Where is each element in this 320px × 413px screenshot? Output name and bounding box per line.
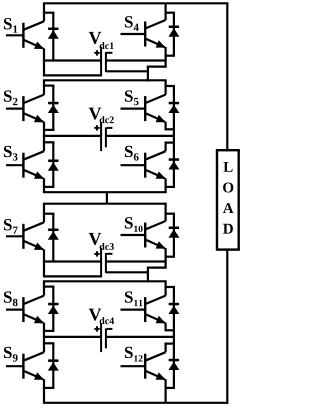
transistor S8 collector (23, 296, 44, 305)
wire S2 bottom staple (43, 129, 55, 131)
transistor S11 collector (145, 296, 165, 305)
wire Vdc1 minus lead (106, 70, 148, 72)
wire S7 collector up (43, 204, 45, 223)
transistor S10 emitter arrow (156, 241, 166, 248)
wire rail to Vdc3 plus (43, 275, 102, 277)
wire S1 emitter node down (43, 61, 45, 76)
label Vdc3 (89, 233, 102, 245)
diode D5 wire (173, 86, 175, 129)
wire jog horizontal lower (147, 267, 167, 269)
polarity + of Vdc3 (94, 253, 99, 255)
wire Vdc4 rail right (106, 336, 175, 338)
transistor S6 bar (144, 153, 146, 178)
voltage source Vdc1 long plate (+) (100, 47, 102, 76)
wire S4 bottom staple (165, 55, 176, 57)
diode D8 triangle (48, 306, 59, 314)
diode D8 wire (52, 287, 54, 331)
wire right side upper (226, 3, 228, 151)
wire jog horizontal (147, 65, 167, 67)
transistor S6 emitter arrow (156, 171, 166, 178)
transistor S1 gate lead (6, 34, 23, 36)
diode D9 cathode bar (48, 359, 58, 362)
label S2 (4, 90, 12, 101)
transistor S12 emitter arrow (156, 372, 166, 379)
transistor S3 bar (22, 153, 24, 178)
label S1 (4, 18, 12, 29)
wire S10 bottom staple (165, 256, 176, 258)
transistor S2 collector (23, 95, 44, 104)
wire S4 collector to top rail (165, 3, 167, 20)
diode D2 triangle (48, 105, 59, 113)
wire S1 collector to top rail (43, 3, 45, 21)
diode D12 wire (173, 344, 175, 388)
transistor S2 emitter arrow (34, 115, 44, 122)
wire S1 emitter down (43, 48, 45, 60)
wire S10 collector up (165, 204, 167, 221)
label Vdc4 (89, 309, 102, 321)
diode D11 triangle (168, 306, 179, 314)
transistor S12 bar (144, 354, 146, 379)
diode D7 triangle (48, 231, 59, 239)
transistor S3 emitter (23, 170, 43, 179)
wire S3 collector down (43, 136, 45, 151)
transistor S7 gate lead (6, 235, 23, 237)
transistor S7 bar (22, 224, 24, 249)
transistor S8 bar (22, 297, 24, 322)
wire S4 top staple (165, 12, 176, 14)
wire mid rail upper (43, 191, 167, 193)
diode D4 wire (173, 13, 175, 56)
diode D3 wire (52, 142, 54, 187)
diode D6 wire (173, 143, 175, 187)
wire Vdc2 rail left (43, 135, 101, 137)
wire right side lower (226, 250, 228, 404)
diode D10 wire (173, 214, 175, 257)
load box (217, 150, 239, 249)
label S9 (4, 347, 12, 358)
wire rail to Vdc1 plus (43, 74, 102, 76)
transistor S9 emitter arrow (34, 372, 44, 379)
wire S9 emitter down to bottom rail (43, 379, 45, 403)
diode D4 cathode bar (169, 26, 179, 29)
wire S8 collector up (43, 281, 45, 295)
wire S8 bottom staple (43, 330, 55, 332)
transistor S1 bar (22, 23, 24, 48)
transistor S9 gate lead (6, 365, 23, 367)
diode D1 cathode bar (48, 28, 58, 31)
wire cell2 top rail (43, 79, 167, 81)
transistor S2 gate lead (6, 107, 23, 109)
polarity + of Vdc4 (94, 328, 99, 330)
transistor S7 emitter arrow (34, 243, 44, 250)
wire S10 emitter down (165, 248, 167, 268)
transistor S7 collector (23, 222, 44, 231)
wire S11 collector up (165, 281, 167, 295)
wire battery rail 3 right (106, 260, 167, 262)
wire S5 collector up (165, 80, 167, 94)
voltage source Vdc3 short plate (-) (105, 253, 107, 273)
diode D11 cathode bar (169, 303, 179, 306)
wire battery rail 1 right (106, 59, 167, 61)
wire S11 top staple (165, 286, 176, 288)
wire jog vertical (147, 67, 149, 82)
transistor S8 emitter (23, 314, 43, 323)
wire battery rail 1 left (43, 59, 101, 61)
diode D12 triangle (168, 362, 179, 370)
transistor S4 emitter (145, 39, 165, 48)
wire S7 emitter down (43, 249, 45, 261)
wire S2 emitter down (43, 122, 45, 136)
wire mid rail lower (43, 203, 167, 205)
wire S6 bottom staple (165, 186, 176, 188)
transistor S12 collector (145, 352, 165, 361)
voltage source Vdc3 long plate (+) (100, 248, 102, 277)
transistor S4 bar (144, 22, 146, 47)
diode D5 cathode bar (169, 102, 179, 105)
diode D3 cathode bar (48, 160, 58, 163)
diode D12 cathode bar (169, 359, 179, 362)
diode D1 triangle (48, 30, 59, 38)
diode D8 cathode bar (48, 303, 58, 306)
label S7 (4, 219, 12, 230)
wire cell4 top rail (43, 280, 167, 282)
diode D4 triangle (168, 28, 179, 36)
transistor S5 emitter arrow (156, 115, 166, 122)
wire bottom rail (43, 402, 227, 404)
wire S4 emitter down (165, 47, 167, 67)
wire S5 emitter down (165, 122, 167, 130)
transistor S10 emitter (145, 240, 165, 249)
label S4 (125, 16, 133, 27)
transistor S12 gate lead (121, 365, 145, 367)
diode D6 cathode bar (169, 158, 179, 161)
wire top rail (43, 2, 229, 4)
transistor S4 gate lead (121, 33, 145, 35)
wire Vdc4 rail left (43, 336, 101, 338)
transistor S9 bar (22, 354, 24, 379)
diode D10 triangle (168, 229, 179, 237)
wire S6 top staple (165, 142, 176, 144)
wire S3 top staple (43, 141, 55, 143)
transistor S11 emitter (145, 314, 165, 323)
transistor S9 collector (23, 352, 44, 361)
wire S5 emitter to Vdc2 rail (173, 129, 175, 142)
wire S9 collector down (43, 337, 45, 352)
wire S10 top staple (165, 213, 176, 215)
label Vdc2 (89, 108, 102, 120)
diode D5 triangle (168, 105, 179, 113)
diode D2 wire (52, 86, 54, 130)
voltage source Vdc1 short plate (-) (105, 52, 107, 72)
transistor S6 gate lead (121, 164, 145, 166)
diode D1 wire (52, 13, 54, 61)
transistor S10 bar (144, 223, 146, 248)
wire S12 top staple (165, 343, 176, 345)
wire S12 collector down (165, 344, 167, 353)
voltage source Vdc2 long plate (+) (100, 122, 102, 151)
diode D10 cathode bar (169, 227, 179, 230)
wire S6 emitter down (165, 178, 167, 192)
polarity - of Vdc3 (107, 253, 113, 255)
wire jog vertical lower (147, 268, 149, 283)
transistor S11 gate lead (121, 309, 145, 311)
wire S9 bottom staple (43, 387, 55, 389)
diode D7 wire (52, 214, 54, 262)
wire S8 top staple (43, 286, 55, 288)
transistor S1 emitter (23, 40, 43, 49)
wire S2 collector up (43, 80, 45, 94)
label S11 (125, 291, 133, 302)
diode D7 cathode bar (48, 229, 58, 232)
transistor S8 emitter arrow (34, 316, 44, 323)
wire S6 collector down (165, 143, 167, 152)
wire battery rail 3 left (43, 260, 101, 262)
transistor S1 emitter arrow (34, 42, 44, 49)
transistor S7 emitter (23, 241, 43, 250)
wire S5 bottom staple (165, 128, 176, 130)
wire S3 emitter down (43, 178, 45, 192)
transistor S5 gate lead (121, 107, 145, 109)
wire mid connector (106, 192, 108, 204)
transistor S8 gate lead (6, 309, 23, 311)
wire S12 emitter down to bottom rail (165, 379, 167, 403)
wire S11 emitter down (165, 323, 167, 331)
wire S7 emitter node down (43, 262, 45, 277)
wire S9 top staple (43, 342, 55, 344)
label Vdc1 (89, 32, 102, 44)
label S5 (125, 90, 133, 101)
polarity + of Vdc1 (94, 52, 99, 54)
transistor S10 collector (145, 221, 165, 230)
transistor S5 collector (145, 95, 165, 104)
diode D2 cathode bar (48, 102, 58, 105)
transistor S3 emitter arrow (34, 171, 44, 178)
voltage source Vdc4 long plate (+) (100, 323, 102, 352)
polarity - of Vdc1 (107, 52, 113, 54)
label S6 (125, 146, 133, 157)
label S8 (4, 291, 12, 302)
transistor S12 emitter (145, 371, 165, 380)
wire S8 emitter down (43, 323, 45, 337)
wire S7 top staple (43, 213, 55, 215)
wire S3 bottom staple (43, 186, 55, 188)
transistor S11 bar (144, 297, 146, 322)
transistor S6 emitter (145, 170, 165, 179)
label S10 (125, 217, 133, 228)
transistor S5 emitter (145, 113, 165, 122)
transistor S9 emitter (23, 371, 43, 380)
transistor S4 collector (145, 20, 165, 29)
wire S12 bottom staple (165, 387, 176, 389)
transistor S10 gate lead (121, 234, 145, 236)
wire Vdc2 rail right (106, 135, 175, 137)
voltage source Vdc2 short plate (-) (105, 127, 107, 147)
diode D9 triangle (48, 362, 59, 370)
wire S1 top staple (43, 12, 55, 14)
transistor S6 collector (145, 151, 165, 160)
polarity - of Vdc2 (107, 127, 113, 129)
wire S11 emitter to Vdc4 rail (173, 330, 175, 343)
wire S11 bottom staple (165, 329, 176, 331)
transistor S4 emitter arrow (156, 40, 166, 47)
polarity - of Vdc4 (107, 328, 113, 330)
transistor S2 emitter (23, 113, 43, 122)
diode D9 wire (52, 343, 54, 388)
diode D3 triangle (48, 162, 59, 170)
wire S5 top staple (165, 85, 176, 87)
wire Vdc3 minus lead (106, 271, 148, 273)
transistor S5 bar (144, 96, 146, 121)
label LOAD (223, 162, 232, 172)
transistor S3 collector (23, 151, 44, 160)
voltage source Vdc4 short plate (-) (105, 328, 107, 348)
transistor S2 bar (22, 96, 24, 121)
transistor S3 gate lead (6, 164, 23, 166)
polarity + of Vdc2 (94, 127, 99, 129)
label S12 (125, 347, 133, 358)
diode D11 wire (173, 287, 175, 330)
transistor S1 collector (23, 21, 44, 30)
wire S2 top staple (43, 84, 55, 86)
transistor S11 emitter arrow (156, 316, 166, 323)
diode D6 triangle (168, 161, 179, 169)
label S3 (4, 146, 12, 157)
